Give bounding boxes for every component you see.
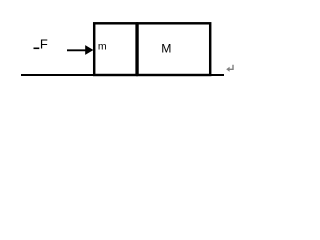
force arrow shaft — [67, 49, 86, 51]
svg-text:F: F — [40, 37, 48, 52]
force arrowhead — [85, 45, 93, 55]
svg-text:m: m — [98, 41, 107, 53]
ground line — [21, 74, 224, 76]
svg-text:M: M — [161, 42, 171, 56]
paragraph return mark — [229, 65, 233, 70]
label F underscore — [34, 47, 40, 49]
block m — [94, 23, 136, 75]
block M — [138, 23, 211, 75]
